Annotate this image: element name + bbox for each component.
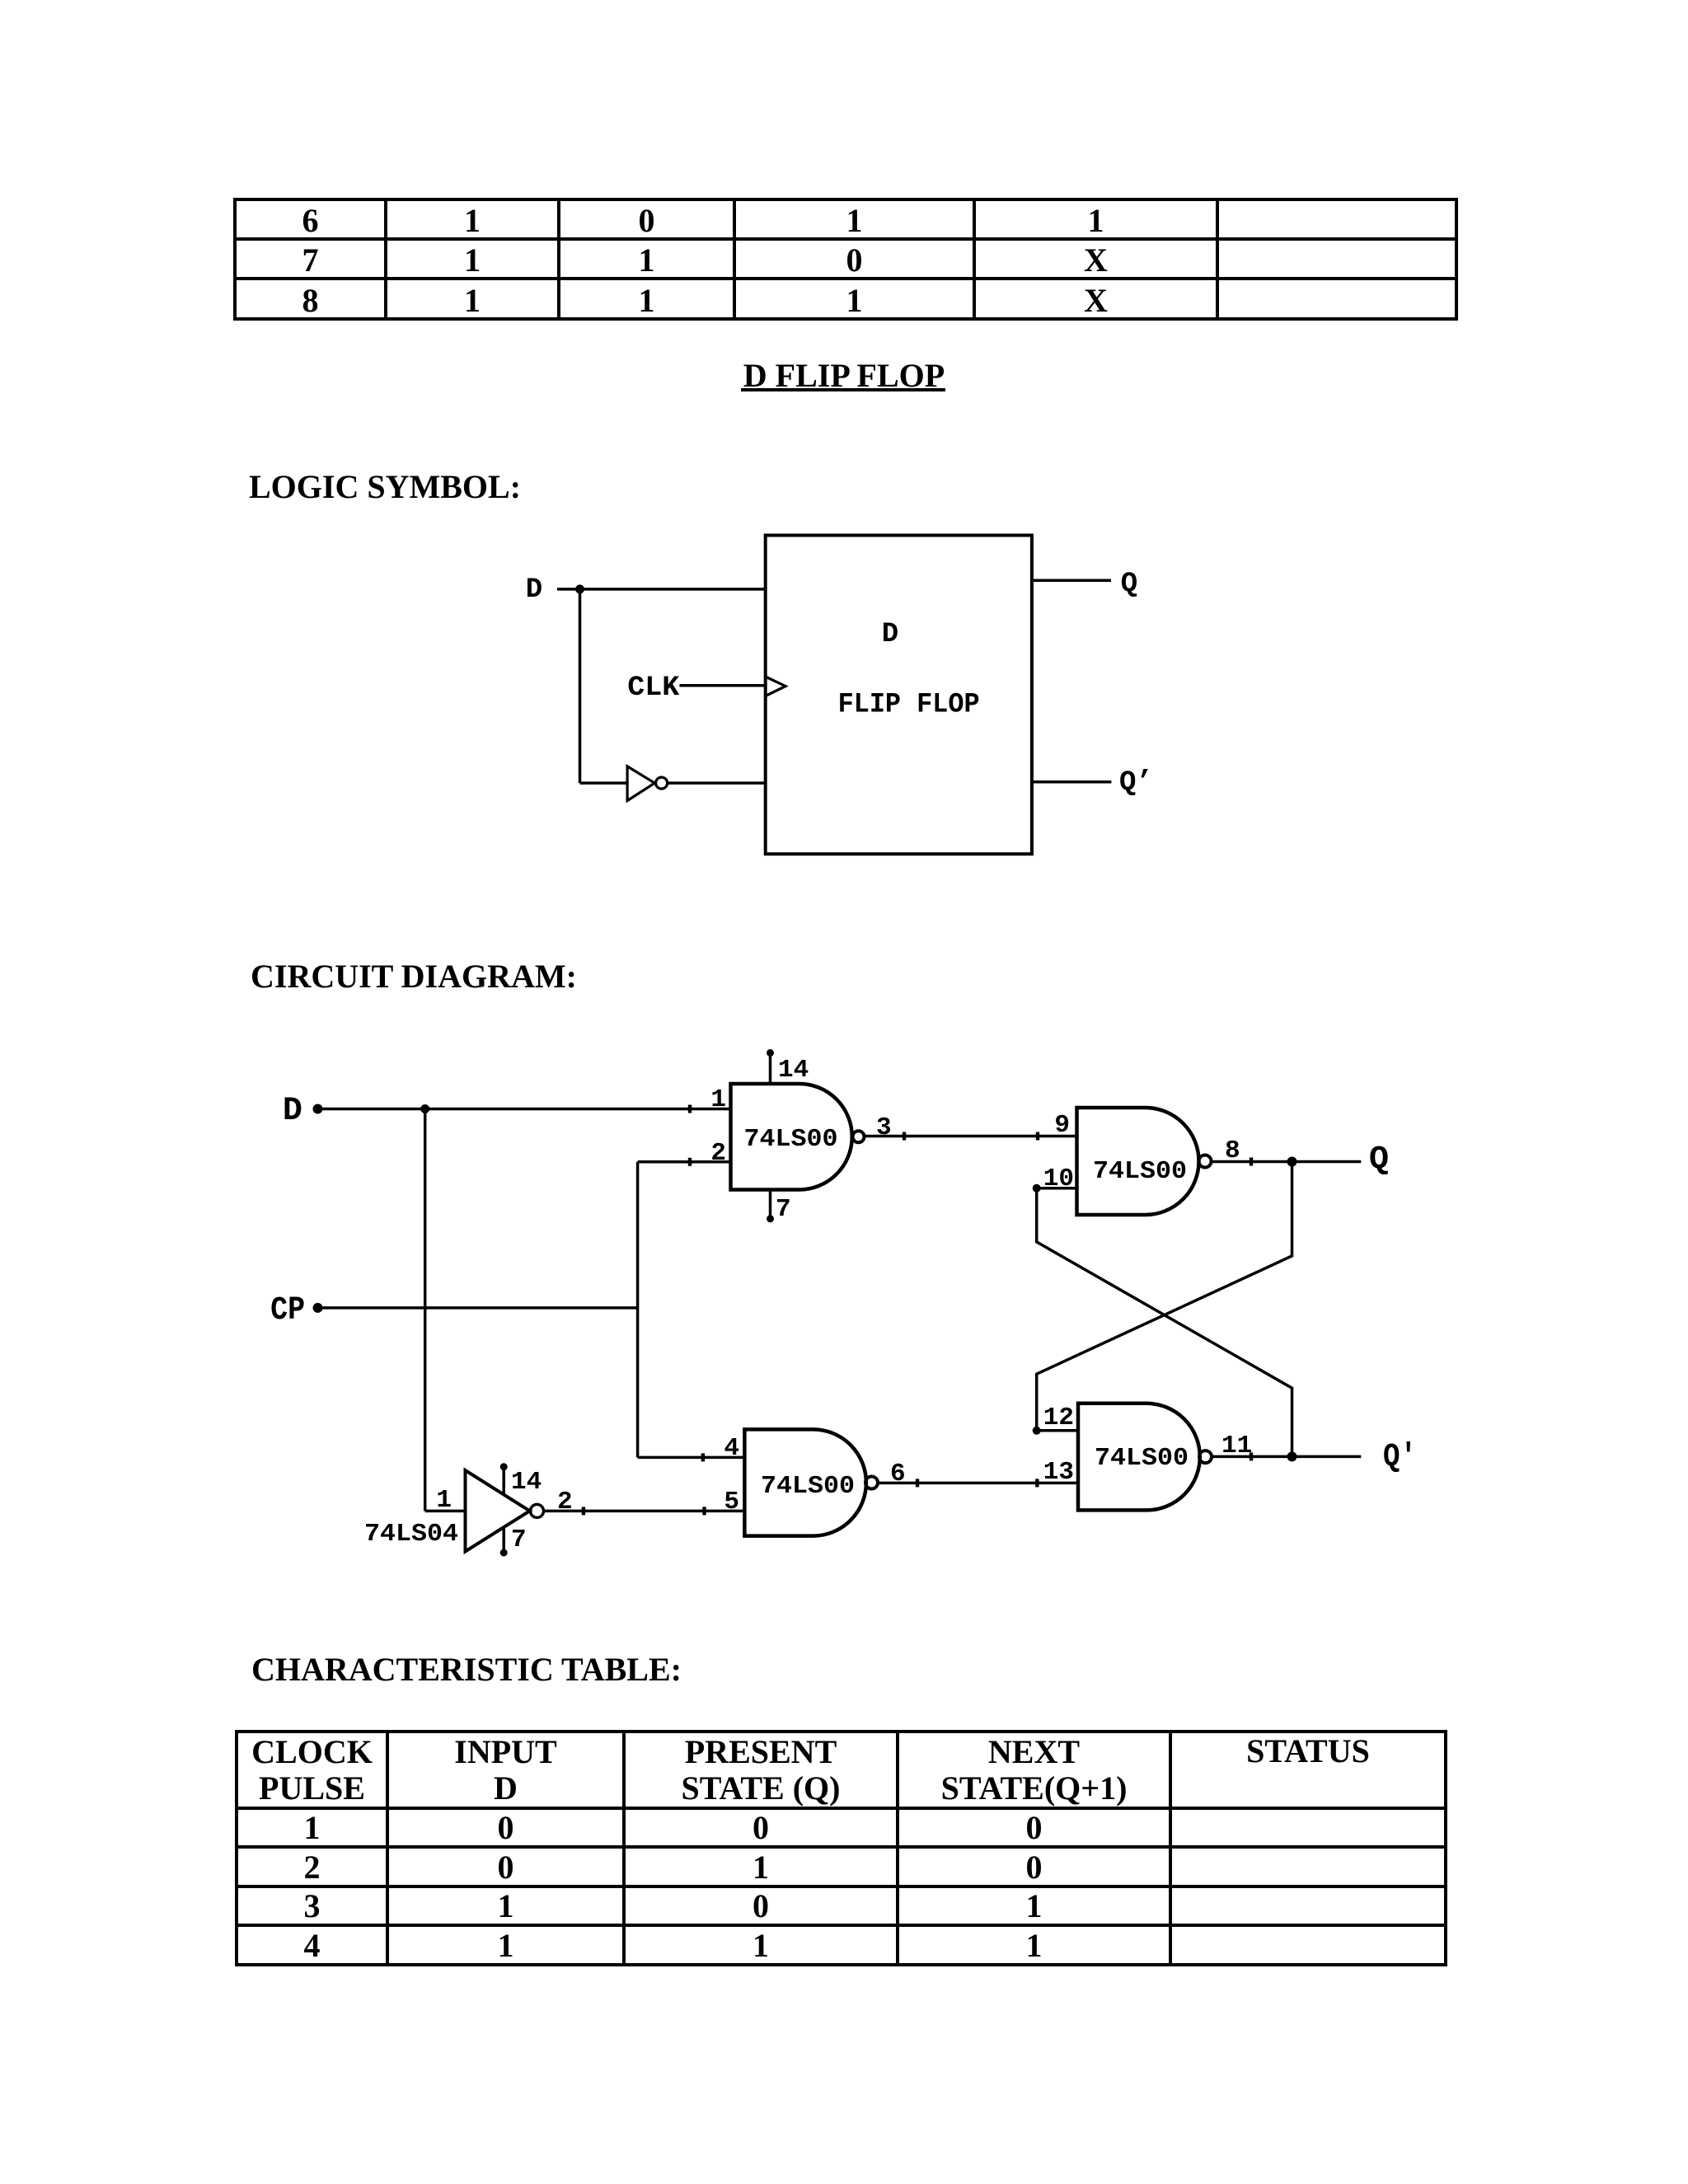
label Q' output bbox=[1119, 767, 1153, 799]
svg-text:Q: Q bbox=[1369, 1141, 1389, 1179]
wire inverter output to box bbox=[668, 781, 766, 785]
svg-text:D: D bbox=[283, 1093, 302, 1130]
junction dot at pin 12 corner bbox=[1033, 1427, 1041, 1435]
label 74LS00 (U1D) bbox=[1095, 1444, 1189, 1473]
wire D vertical branch bbox=[424, 1109, 427, 1511]
svg-text:74LS00: 74LS00 bbox=[761, 1472, 855, 1501]
svg-text:74LS00: 74LS00 bbox=[1093, 1157, 1187, 1186]
label D net bbox=[283, 1093, 302, 1130]
junction node Q' bbox=[1287, 1451, 1297, 1461]
svg-text:14: 14 bbox=[511, 1468, 542, 1497]
pin 1 label (U1A) bbox=[710, 1085, 726, 1114]
label CP net bbox=[270, 1292, 305, 1329]
pin 8 label (U1B) bbox=[1225, 1137, 1240, 1165]
pin 11 label (U1D) bbox=[1221, 1432, 1252, 1460]
svg-text:Q’: Q’ bbox=[1119, 767, 1153, 799]
label Q net bbox=[1369, 1141, 1389, 1179]
svg-text:CLK: CLK bbox=[627, 673, 680, 704]
svg-text:D: D bbox=[882, 619, 898, 650]
logic symbol drawing placeholder bbox=[0, 511, 1688, 882]
wire cross-couple Q' to U1B pin 10 bbox=[1037, 1188, 1292, 1457]
pin 3 label (U1A) bbox=[876, 1113, 892, 1142]
title D FLIP FLOP bbox=[0, 359, 1688, 392]
wire CP riser to pins 2 and 4 bbox=[636, 1162, 640, 1458]
label D input bbox=[526, 574, 542, 606]
wire D input bbox=[557, 588, 766, 591]
wire D branch vertical bbox=[579, 589, 582, 783]
pin 14 VCC stub (U1A) bbox=[767, 1049, 774, 1084]
pin 7 GND stub (U2A) bbox=[500, 1527, 508, 1556]
svg-text:14: 14 bbox=[778, 1056, 809, 1085]
pin 4 label (U1C) bbox=[724, 1434, 739, 1463]
svg-text:5: 5 bbox=[724, 1488, 739, 1516]
svg-text:1: 1 bbox=[710, 1085, 726, 1114]
pin 2 label (U2A) bbox=[557, 1488, 573, 1516]
label Q' net bbox=[1383, 1439, 1417, 1476]
label D (inside box) bbox=[882, 619, 898, 650]
pin 14 VCC stub (U2A) bbox=[500, 1463, 508, 1494]
svg-text:7: 7 bbox=[511, 1526, 527, 1554]
label 14 (U2A) bbox=[511, 1468, 542, 1497]
pin 7 GND stub (U1A) bbox=[767, 1190, 774, 1223]
svg-text:4: 4 bbox=[724, 1434, 739, 1463]
junction dot at pin 10 corner bbox=[1033, 1184, 1041, 1193]
wire Q output bbox=[1212, 1158, 1362, 1166]
label 74LS00 (U1B) bbox=[1093, 1157, 1187, 1186]
wire U2A pin2 to U1C pin5 bbox=[544, 1507, 745, 1515]
terminal dot CP bbox=[313, 1303, 323, 1313]
pin 10 label (U1B) bbox=[1043, 1165, 1074, 1193]
svg-text:D: D bbox=[526, 574, 542, 606]
node D branch junction bbox=[575, 584, 584, 593]
label 74LS00 (U1C) bbox=[761, 1472, 855, 1501]
label 7 (U1A) bbox=[776, 1195, 791, 1224]
svg-text:74LS00: 74LS00 bbox=[744, 1125, 838, 1154]
D flip flop box U3 bbox=[766, 536, 1032, 855]
label 74LS04 bbox=[364, 1520, 458, 1549]
wire Q' output bbox=[1212, 1452, 1361, 1460]
label 74LS00 (U1A) bbox=[744, 1125, 838, 1154]
NAND gate U1D 74LS00 bbox=[1078, 1404, 1212, 1511]
label Q output bbox=[1121, 569, 1137, 600]
heading LOGIC SYMBOL bbox=[249, 471, 521, 504]
svg-text:1: 1 bbox=[436, 1486, 452, 1515]
wire to 74LS04 pin 1 bbox=[425, 1510, 466, 1513]
svg-text:3: 3 bbox=[876, 1113, 892, 1142]
wire to U1A pin 2 bbox=[638, 1158, 731, 1166]
pin 1 label (U2A) bbox=[436, 1486, 452, 1515]
pin 2 label (U1A) bbox=[710, 1139, 726, 1168]
wire D net horizontal bbox=[318, 1105, 731, 1113]
svg-text:Q: Q bbox=[1121, 569, 1137, 600]
heading CHARACTERISTIC TABLE bbox=[251, 1653, 682, 1686]
wire CP horizontal bbox=[318, 1306, 638, 1310]
svg-text:Q': Q' bbox=[1383, 1439, 1417, 1476]
wire Q' output bbox=[1032, 780, 1112, 784]
wire U1C pin6 to U1D pin13 bbox=[878, 1479, 1078, 1487]
NAND gate U1B 74LS00 bbox=[1077, 1108, 1212, 1215]
svg-text:FLIP FLOP: FLIP FLOP bbox=[838, 690, 980, 721]
inverter U2A 74LS04 bbox=[466, 1470, 544, 1552]
circuit diagram drawing placeholder bbox=[0, 1034, 1688, 1578]
inverter (NOT gate) on D' path bbox=[627, 766, 668, 801]
top truth table (rows 6-8) bbox=[233, 198, 1458, 321]
label FLIP FLOP bbox=[838, 690, 980, 721]
wire U1A pin3 to U1B pin9 bbox=[865, 1132, 1077, 1141]
pin 5 label (U1C) bbox=[724, 1488, 739, 1516]
wire CLK bbox=[679, 684, 765, 687]
svg-text:74LS04: 74LS04 bbox=[364, 1520, 458, 1549]
wire Q output bbox=[1032, 579, 1111, 583]
NAND gate U1A 74LS00 bbox=[731, 1084, 865, 1190]
svg-text:13: 13 bbox=[1043, 1458, 1074, 1487]
junction dot D branch bbox=[420, 1104, 429, 1113]
wire to U1C pin 4 bbox=[638, 1453, 745, 1461]
terminal dot D bbox=[313, 1104, 323, 1114]
pin 12 label (U1D) bbox=[1043, 1404, 1074, 1432]
svg-text:74LS00: 74LS00 bbox=[1095, 1444, 1189, 1473]
svg-text:CP: CP bbox=[270, 1292, 305, 1329]
clock edge triangle bbox=[767, 677, 785, 696]
svg-text:7: 7 bbox=[776, 1195, 791, 1224]
label 7 (U2A) bbox=[511, 1526, 527, 1554]
pin 9 label (U1B) bbox=[1054, 1111, 1070, 1140]
wire cross-couple Q to U1D pin 12 bbox=[1037, 1162, 1292, 1431]
svg-text:9: 9 bbox=[1054, 1111, 1070, 1140]
NAND gate U1C 74LS00 bbox=[744, 1429, 878, 1535]
label CLK bbox=[627, 673, 680, 704]
wire branch to inverter input bbox=[580, 781, 628, 785]
svg-text:2: 2 bbox=[710, 1139, 726, 1168]
pin 6 label (U1C) bbox=[890, 1460, 906, 1488]
heading CIRCUIT DIAGRAM bbox=[251, 960, 577, 993]
pin 13 label (U1D) bbox=[1043, 1458, 1074, 1487]
characteristic table bbox=[235, 1730, 1447, 1966]
label 14 (U1A) bbox=[778, 1056, 809, 1085]
svg-text:12: 12 bbox=[1043, 1404, 1074, 1432]
junction node Q bbox=[1287, 1157, 1297, 1167]
